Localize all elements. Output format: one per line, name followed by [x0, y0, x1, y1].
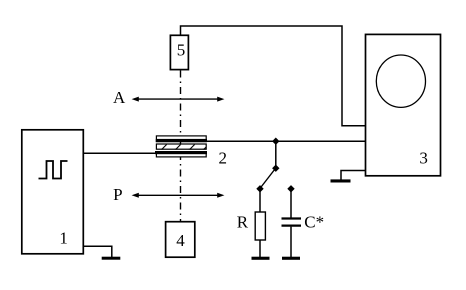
svg-text:R: R: [237, 213, 249, 232]
svg-text:3: 3: [419, 148, 428, 167]
svg-text:P: P: [113, 185, 122, 204]
svg-text:C*: C*: [304, 213, 324, 232]
svg-text:4: 4: [176, 231, 185, 250]
svg-text:A: A: [113, 88, 126, 107]
svg-text:1: 1: [59, 229, 68, 248]
svg-text:2: 2: [219, 148, 228, 167]
svg-text:5: 5: [177, 41, 186, 60]
